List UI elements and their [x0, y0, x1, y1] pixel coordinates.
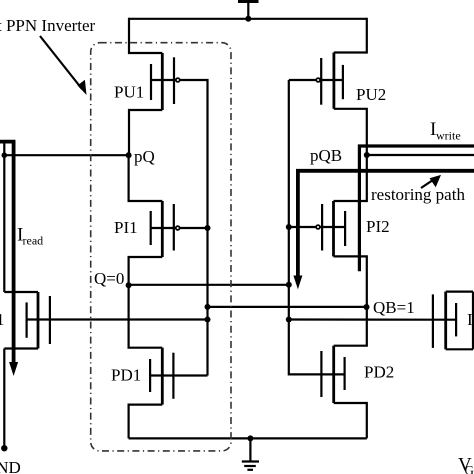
svg-text:read: read — [23, 234, 44, 248]
wire PU1 gate lead — [180, 79, 207, 81]
ground symbol — [242, 438, 259, 469]
wire restoring path thick — [298, 171, 474, 277]
wire Q down to PD1 — [129, 285, 163, 348]
transistor PI2 — [316, 201, 345, 256]
wire PD2 source to ground rail — [334, 403, 367, 438]
svg-text:write: write — [436, 129, 461, 143]
wire PI1 drain to Q — [129, 257, 163, 285]
svg-text:PU1: PU1 — [114, 83, 144, 102]
node GND terminal dot — [1, 445, 7, 451]
wire PU1 drain to pQ — [129, 110, 162, 155]
VDD supply symbol — [238, 0, 259, 19]
transistor WR2 right write access — [433, 292, 473, 350]
annotation arrow PPN — [40, 36, 87, 95]
svg-text:G: G — [465, 463, 474, 474]
node PI2 gate junction — [286, 224, 292, 230]
node Q — [126, 282, 132, 288]
svg-text:PD1: PD1 — [111, 366, 141, 385]
wire PI2 drain to QB — [334, 256, 367, 307]
arrowhead I_read — [9, 362, 18, 376]
node ground junction dot — [247, 435, 253, 441]
wire PD1 source to ground rail — [129, 405, 163, 439]
svg-text:restoring path: restoring path — [371, 185, 465, 204]
transistor PD2 — [289, 346, 344, 403]
transistor RD1 left read — [4, 292, 207, 349]
wire VDD rail — [129, 18, 367, 20]
node wordline left junction — [205, 317, 211, 323]
wire QB down to PD2 — [334, 307, 367, 346]
node input column cross-couple junction — [205, 304, 211, 310]
wire I_write thick path — [359, 146, 474, 271]
svg-text:PD2: PD2 — [364, 363, 394, 382]
svg-text:PI2: PI2 — [366, 217, 390, 236]
wire PU2 gate lead — [289, 79, 316, 81]
svg-text:I: I — [467, 310, 473, 329]
arrowhead restoring path — [293, 276, 302, 290]
node wordline right junction — [286, 317, 292, 323]
transistor PI1 — [151, 201, 180, 257]
wire read bitline stub left — [3, 141, 5, 292]
wire ground rail — [129, 437, 367, 439]
wire PI1 gate lead — [180, 227, 208, 229]
svg-text:1: 1 — [0, 310, 5, 329]
wire PU1 source drop — [129, 18, 162, 53]
svg-text:pQ: pQ — [134, 147, 155, 166]
wire Q line to right inverter input — [129, 284, 289, 286]
wire PU2 drain to pQB — [334, 109, 367, 155]
svg-text:pQB: pQB — [310, 146, 342, 165]
transistor PD1 — [150, 348, 207, 405]
node pQB — [364, 152, 370, 158]
wire wordline right segment — [289, 318, 433, 320]
svg-text:PU2: PU2 — [356, 85, 386, 104]
wire PI2 gate lead — [289, 226, 316, 228]
wire PU2 source drop — [334, 18, 367, 53]
svg-text:PI1: PI1 — [114, 218, 138, 237]
wire left inverter input column — [207, 80, 208, 376]
svg-text:t PPN Inverter: t PPN Inverter — [0, 16, 96, 35]
svg-text:Q=0: Q=0 — [94, 269, 124, 288]
node PI1 gate junction — [205, 225, 211, 231]
node pQ — [126, 152, 132, 158]
wire I_read thick path — [0, 142, 14, 364]
node VDD junction dot — [245, 16, 251, 22]
wire pQB thin line to right — [367, 154, 474, 156]
transistor PU1 — [151, 53, 180, 110]
dash-dot box PPN inverter — [91, 43, 231, 451]
wire right inverter input column — [288, 80, 291, 374]
wire cross-couple to QB — [208, 306, 367, 308]
svg-text:GND: GND — [0, 458, 21, 474]
wire pQ to left — [4, 154, 128, 156]
wire pQ down to PI1 — [129, 155, 163, 201]
svg-text:QB=1: QB=1 — [373, 298, 415, 317]
transistor PU2 — [316, 53, 343, 109]
wire left source to GND — [3, 349, 5, 449]
node read bitline pQ junction dot — [2, 152, 8, 158]
annotation arrow restoring — [421, 175, 441, 188]
node QB — [364, 304, 370, 310]
node Q line end junction — [286, 282, 292, 288]
wire pQB down to PI2 — [334, 155, 367, 201]
